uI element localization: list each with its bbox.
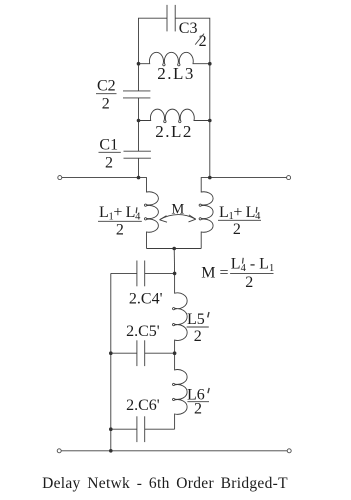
svg-text:L1+ L4: L1+ L4	[99, 204, 141, 222]
svg-text:2.C5': 2.C5'	[126, 323, 160, 340]
svg-text:2: 2	[102, 96, 110, 113]
svg-text:M =: M =	[201, 265, 228, 282]
svg-text:2: 2	[245, 274, 253, 291]
svg-text:2.C6': 2.C6'	[126, 397, 160, 414]
svg-text:2.C4': 2.C4'	[129, 291, 163, 308]
svg-text:2: 2	[105, 154, 113, 171]
svg-text:2: 2	[116, 222, 124, 239]
svg-text:C2: C2	[97, 78, 116, 95]
svg-text:2: 2	[199, 33, 207, 50]
svg-text:L4 - L1: L4 - L1	[231, 256, 274, 274]
svg-text:L5: L5	[187, 311, 205, 328]
svg-text:C3: C3	[179, 20, 198, 37]
svg-text:2: 2	[233, 221, 241, 238]
svg-text:2.L2: 2.L2	[155, 122, 193, 141]
svg-text:Delay Netwk - 6th Order Bridge: Delay Netwk - 6th Order Bridged-T	[42, 475, 288, 492]
svg-text:C1: C1	[99, 137, 118, 154]
svg-text:L1+ L4: L1+ L4	[219, 204, 261, 222]
svg-text:2: 2	[194, 328, 202, 345]
svg-text:2.L3: 2.L3	[157, 64, 195, 83]
svg-text:M: M	[171, 201, 184, 217]
svg-text:2: 2	[194, 400, 202, 417]
